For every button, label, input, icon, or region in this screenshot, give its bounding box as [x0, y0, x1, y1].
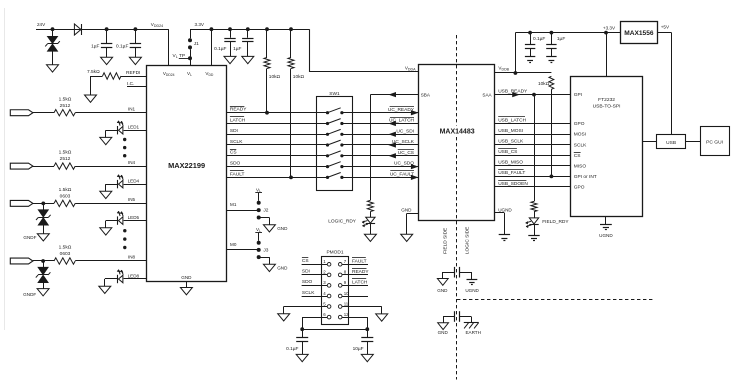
ground UGND right of C13: [467, 279, 478, 281]
junction R5/USB_FAULT: [550, 175, 554, 179]
jumper J3 pin2: [257, 248, 261, 252]
svg-text:IN8: IN8: [128, 255, 136, 260]
svg-text:UGND: UGND: [498, 207, 512, 212]
junction R3/FAULT: [289, 176, 293, 180]
svg-text:GNDF: GNDF: [23, 292, 36, 297]
svg-text:IN5: IN5: [128, 197, 136, 202]
wire PMOD pin3: [302, 285, 328, 287]
svg-text:FIELD_RDY: FIELD_RDY: [542, 219, 569, 225]
ground GNDF under IN8 TVS: [37, 289, 49, 296]
svg-text:1.5kΩ: 1.5kΩ: [59, 187, 72, 193]
diode D1 series: [74, 24, 81, 35]
resistor R-LOGICRDY: [367, 200, 373, 211]
wire PMOD pin8: [342, 274, 368, 276]
wire UC_FAULT SW1-U2: [353, 177, 419, 179]
svg-text:CS: CS: [230, 150, 237, 156]
LED LOGIC_RDY: [366, 217, 375, 223]
arrow USB_READY: [513, 92, 519, 96]
svg-text:CS: CS: [574, 153, 581, 159]
junction +3.3V: [604, 31, 608, 35]
svg-text:USB_SCLK: USB_SCLK: [498, 139, 524, 145]
ellipsis dots LED1-LED4: [123, 138, 126, 141]
capacitor C9 0.1uF: [530, 33, 532, 45]
svg-text:MAX22199: MAX22199: [168, 161, 205, 170]
switch SW1 pole 7: [316, 177, 327, 179]
svg-text:+3.3V: +3.3V: [603, 25, 616, 30]
junction R2/READY: [265, 111, 269, 115]
wire LED4 to ground: [106, 184, 118, 186]
wire IN8 to U1: [75, 260, 147, 262]
svg-text:10: 10: [344, 291, 349, 296]
ground UGND under FIELD_RDY: [528, 235, 539, 237]
svg-text:GND: GND: [277, 266, 288, 271]
svg-text:SDO: SDO: [302, 279, 313, 285]
svg-text:GNDF: GNDF: [23, 235, 36, 240]
PMOD1 pin 4 circle: [327, 294, 331, 298]
junction IN5/TVS: [41, 202, 45, 206]
wire J3 pin3 to ground: [259, 257, 270, 259]
arrow UC_SDI out of U2: [389, 132, 395, 136]
junction C2/rail: [134, 27, 138, 31]
svg-text:EARTH: EARTH: [465, 330, 481, 335]
connector tag IN8: [10, 258, 33, 264]
arrow UC_FAULT into U2: [411, 175, 417, 179]
svg-text:UGND: UGND: [465, 288, 479, 293]
svg-text:LATCH: LATCH: [230, 117, 246, 123]
capacitor C3 0.1uF: [230, 29, 232, 38]
PMOD1 pin 7 circle: [338, 263, 342, 267]
ground EARTH symbol: [464, 322, 479, 324]
svg-text:CS: CS: [302, 258, 309, 264]
PMOD1 pin 6 circle: [327, 315, 331, 319]
resistor R-IN1 1.5kohm: [54, 110, 75, 116]
wire PMOD pin1: [302, 264, 328, 266]
wire LED1 from U1: [124, 130, 147, 132]
ground under LOGIC_RDY: [364, 234, 376, 241]
ground UGND under U2: [499, 234, 510, 236]
resistor R-IN8 1.5kohm: [54, 258, 75, 264]
jumper J2 pin1: [257, 201, 261, 205]
resistor R-FIELDRDY: [531, 201, 537, 211]
ground under LED8: [99, 286, 111, 293]
svg-text:0603: 0603: [60, 193, 71, 199]
svg-text:VL: VL: [187, 71, 192, 77]
svg-text:USB_FAULT: USB_FAULT: [498, 170, 525, 176]
U2 pin GND wire: [407, 213, 419, 215]
svg-text:SCLK: SCLK: [230, 139, 243, 145]
switch SW1 pole 3: [316, 134, 327, 136]
svg-text:SDI: SDI: [302, 269, 310, 275]
svg-text:1µF: 1µF: [557, 36, 565, 42]
svg-text:IN4: IN4: [128, 160, 136, 165]
svg-text:SCLK: SCLK: [574, 142, 587, 148]
regulator U4 MAX1556 box: [621, 22, 658, 44]
svg-text:USB_READY: USB_READY: [498, 89, 528, 95]
ground GNDF under TVS: [47, 65, 59, 72]
ground UGND under C10: [546, 56, 556, 58]
svg-text:USB_CS: USB_CS: [498, 149, 517, 155]
PMOD1 pin 9 circle: [338, 284, 342, 288]
svg-text:SW1: SW1: [329, 91, 340, 97]
ground under LED4: [100, 191, 112, 198]
junction 24V/TVS: [51, 27, 55, 31]
svg-text:J1: J1: [194, 41, 199, 47]
wire J1 to TP: [190, 49, 192, 65]
wire LED4 from U1: [124, 184, 147, 186]
svg-text:1µF: 1µF: [233, 46, 241, 52]
junction C3/rail: [228, 27, 232, 31]
wire VDDB riser: [515, 33, 517, 73]
wire M0 pin to U1: [227, 249, 259, 251]
wire UC_READY SW1-U2: [353, 112, 419, 114]
resistor R-IN4 1.5kohm: [54, 163, 75, 169]
svg-text:PMOD1: PMOD1: [326, 249, 343, 255]
svg-text:USB_MOSI: USB_MOSI: [498, 128, 523, 134]
svg-text:GND: GND: [181, 275, 192, 280]
svg-text:GPI: GPI: [574, 92, 582, 98]
svg-text:SCLK: SCLK: [302, 290, 315, 296]
TVS diode D-24V: [48, 36, 58, 43]
op-amp U1 MAX22199 box: [147, 66, 227, 282]
connector tag IN4: [10, 163, 33, 169]
junction VDDB riser: [514, 71, 518, 75]
connector tag IN1: [10, 110, 33, 116]
svg-text:J3: J3: [263, 247, 268, 253]
svg-text:LATCH: LATCH: [352, 279, 368, 285]
svg-text:1µF: 1µF: [91, 44, 99, 50]
svg-text:11: 11: [344, 301, 349, 306]
svg-text:FAULT: FAULT: [352, 258, 367, 264]
junction VL TP: [188, 56, 192, 60]
svg-text:LED8: LED8: [128, 273, 140, 278]
svg-text:MAX1556: MAX1556: [624, 30, 654, 37]
wire PMOD pin5 to ground: [284, 306, 328, 308]
svg-text:USB_MISO: USB_MISO: [498, 160, 523, 166]
wire USB_LATCH: [494, 123, 571, 125]
ground under C3: [224, 56, 236, 63]
LED LED1: [117, 126, 119, 134]
ground under C1: [101, 57, 113, 64]
svg-text:UC_SDI: UC_SDI: [396, 128, 414, 134]
ground under C12: [361, 354, 373, 361]
svg-text:SDI: SDI: [230, 128, 238, 134]
jumper J1 stem top: [190, 29, 192, 38]
connector tag IN5: [10, 200, 33, 206]
wire UC_SCLK SW1-U2: [353, 144, 419, 146]
PMOD1 pin 10 circle: [338, 294, 342, 298]
wire M1 pin to U1: [227, 210, 259, 212]
wire IN4 left: [33, 166, 54, 168]
arrow UC_SCLK out of U2: [389, 143, 395, 147]
svg-text:J2: J2: [263, 208, 268, 214]
svg-text:VDD: VDD: [205, 71, 214, 77]
wire VDDB pin: [494, 72, 551, 74]
svg-text:USB-TO-SPI: USB-TO-SPI: [593, 104, 621, 110]
junction FIELD_RDY branch: [532, 93, 536, 97]
svg-text:GPO: GPO: [574, 185, 585, 191]
svg-text:UC_CS: UC_CS: [398, 150, 414, 156]
svg-text:0.1µF: 0.1µF: [214, 46, 226, 52]
wire USB to PC GUI: [686, 141, 700, 143]
wire PMOD pin2: [302, 274, 328, 276]
svg-text:1.5kΩ: 1.5kΩ: [59, 150, 72, 156]
wire UC_SDO SW1-U2: [353, 166, 419, 168]
wire LED1 to ground: [106, 130, 118, 132]
U3 UGND wire: [605, 217, 607, 224]
wire C13 right to UGND: [471, 272, 473, 279]
svg-text:MAX14483: MAX14483: [440, 129, 475, 136]
ground GNDF under IN5 TVS: [37, 234, 49, 241]
arrow UC_READY into U2: [411, 111, 417, 115]
svg-text:0.1µF: 0.1µF: [286, 346, 298, 352]
wire +3.3V to FT2232: [606, 33, 608, 76]
wire PMOD pin10 stub: [342, 296, 368, 298]
svg-text:2512: 2512: [60, 103, 71, 109]
LED LED8: [117, 275, 119, 283]
PMOD1 pin 2 circle: [327, 273, 331, 277]
jumper J3 pin1: [257, 241, 261, 245]
junction C9/rail: [528, 31, 532, 35]
svg-text:I.C.: I.C.: [127, 81, 134, 87]
switch SW1 pole 4: [316, 144, 327, 146]
LED LED4: [117, 180, 119, 188]
wire VDD24 down: [168, 29, 170, 65]
svg-text:REFDI: REFDI: [126, 70, 140, 76]
svg-text:7.5kΩ: 7.5kΩ: [87, 69, 100, 75]
wire SDI U1-SW1: [227, 134, 317, 136]
svg-text:0603: 0603: [60, 251, 71, 257]
wire +5V: [657, 32, 671, 34]
wire LED to ground: [370, 224, 372, 235]
svg-text:LOGIC_RDY: LOGIC_RDY: [328, 219, 357, 225]
capacitor C13 GND-UGND: [443, 272, 455, 274]
wire USB_MISO: [494, 165, 571, 167]
svg-text:GND: GND: [401, 208, 412, 213]
ground under PMOD pin11: [376, 314, 388, 321]
wire UC_SDI SW1-U2: [353, 134, 419, 136]
jumper J1 pin1: [188, 38, 192, 42]
switch SW1 box: [317, 97, 353, 191]
wire SBA: [370, 94, 418, 96]
wire U3 to USB: [642, 141, 656, 143]
svg-text:24V: 24V: [37, 22, 46, 27]
wire PMOD pin11 to ground: [342, 306, 382, 308]
ground UGND under U3: [600, 224, 612, 226]
ellipsis dots LED5-LED8: [123, 229, 126, 232]
wire LED8 from U1: [124, 278, 147, 280]
jumper J2 pin3: [257, 216, 261, 220]
svg-text:LED1: LED1: [128, 125, 140, 130]
ground under C2: [129, 57, 141, 64]
svg-text:GND: GND: [437, 288, 448, 293]
capacitor C12 10uF: [367, 329, 369, 337]
svg-text:SAA: SAA: [482, 93, 492, 98]
junction C1/rail: [105, 27, 109, 31]
ground under U1: [180, 288, 192, 295]
ground under LED1: [100, 137, 112, 144]
wire C14 left to GND: [443, 316, 445, 323]
junction C12: [365, 327, 369, 331]
svg-text:READY: READY: [352, 269, 369, 275]
wire IN8 left: [33, 260, 54, 262]
capacitor C2 0.1uF: [135, 29, 137, 43]
wire VDD down: [211, 29, 213, 65]
wire UC_LATCH SW1-U2: [353, 123, 419, 125]
arrow UC_CS out of U2: [389, 154, 395, 158]
wire PMOD pin4: [302, 296, 328, 298]
PMOD1 pin 11 circle: [338, 305, 342, 309]
svg-text:10kΩ: 10kΩ: [269, 74, 281, 80]
wire IN1 to U1: [75, 112, 147, 114]
svg-text:MISO: MISO: [574, 163, 587, 169]
connector PMOD1 box: [322, 257, 349, 325]
switch SW1 pole 6: [316, 166, 327, 168]
resistor R5 10kohm pullup: [549, 76, 554, 89]
capacitor C14 GND-EARTH: [443, 316, 455, 318]
ground UGND under C9: [525, 56, 535, 58]
LED LED5: [117, 216, 119, 224]
isolation barrier vertical dashed upper: [456, 35, 458, 126]
junction R3/rail: [289, 27, 293, 31]
resistor R-IN5 1.5kohm: [54, 200, 75, 206]
block PC GUI box: [701, 127, 730, 156]
svg-text:10kΩ: 10kΩ: [538, 81, 550, 87]
wire R-REFDI to ground: [90, 76, 92, 95]
wire FIELD_RDY down: [534, 95, 536, 202]
wire USB_FAULT: [494, 176, 571, 178]
svg-text:0.1µF: 0.1µF: [116, 44, 128, 50]
svg-text:VDDB: VDDB: [498, 66, 509, 72]
wire IN5 to U1: [75, 203, 147, 205]
wire SDO U1-SW1: [227, 166, 317, 168]
svg-text:UC_FAULT: UC_FAULT: [390, 172, 414, 178]
pin I.C. stub: [127, 86, 147, 88]
svg-text:FIELD SIDE: FIELD SIDE: [442, 228, 448, 254]
capacitor C11 0.1uF: [302, 329, 304, 337]
junction VDD stub: [210, 27, 214, 31]
svg-text:VDD24: VDD24: [163, 71, 175, 77]
wire SBA down to R-LOGIC: [370, 95, 372, 201]
arrow SBA out: [389, 92, 395, 96]
interface U3 FT2232 box: [571, 77, 643, 217]
wire USB_SCLK: [494, 144, 571, 146]
capacitor C4 1uF: [247, 29, 249, 38]
junction C10/rail: [550, 31, 554, 35]
wire PMOD pin6 down: [302, 317, 327, 319]
wire LED5 from U1: [124, 220, 147, 222]
connector USB box: [657, 135, 686, 149]
svg-text:GPI or INT: GPI or INT: [574, 174, 597, 180]
ground under R-REFDI: [85, 95, 97, 102]
wire USB_MOSI: [494, 134, 571, 136]
ground under C4: [242, 56, 254, 63]
svg-text:10µF: 10µF: [353, 346, 364, 352]
svg-text:USB_LATCH: USB_LATCH: [498, 117, 526, 123]
svg-text:12: 12: [344, 312, 349, 317]
svg-text:SDO: SDO: [230, 161, 241, 167]
svg-text:VDDA: VDDA: [405, 66, 416, 72]
svg-text:MOSI: MOSI: [574, 132, 586, 138]
digital isolator U2 MAX14483 box: [419, 65, 495, 221]
wire C13 left to GND: [442, 272, 444, 279]
junction R2/rail: [265, 27, 269, 31]
svg-text:LOGIC SIDE: LOGIC SIDE: [464, 227, 470, 254]
wire C14 right to EARTH: [471, 317, 473, 323]
ground GND left of C14: [438, 323, 449, 330]
LED FIELD_RDY: [529, 218, 538, 224]
ground under C11: [296, 354, 308, 361]
switch SW1 pole 5: [316, 155, 327, 157]
wire PMOD vcc bus: [302, 329, 367, 331]
PMOD1 pin 1 circle: [327, 263, 331, 267]
wire USB_CS: [494, 155, 571, 157]
wire SCLK U1-SW1: [227, 144, 317, 146]
ground under J2: [263, 225, 275, 232]
svg-text:UGND: UGND: [599, 233, 613, 238]
svg-text:SBA: SBA: [421, 93, 431, 98]
wire SAA USB_READY: [494, 94, 571, 96]
svg-text:GPO: GPO: [574, 121, 585, 127]
ground under U2 GND: [401, 234, 413, 241]
svg-text:10kΩ: 10kΩ: [293, 74, 305, 80]
jumper J2 pin2: [257, 208, 261, 212]
svg-text:1.5kΩ: 1.5kΩ: [59, 96, 72, 102]
arrow UC_LATCH out of U2: [389, 121, 395, 125]
svg-text:LED5: LED5: [128, 215, 140, 220]
wire TVS top: [52, 29, 54, 36]
svg-text:2512: 2512: [60, 156, 71, 162]
wire U1 GND: [186, 282, 188, 288]
svg-text:PC GUI: PC GUI: [706, 140, 723, 146]
junction C11: [300, 327, 304, 331]
resistor R3 10kohm pullup: [290, 29, 292, 57]
svg-text:0.1µF: 0.1µF: [533, 36, 545, 42]
wire LED8 to ground: [105, 278, 118, 280]
TVS diode on IN5: [43, 203, 45, 209]
ground GND left of C13: [437, 279, 448, 286]
wire 3.3V rail: [190, 29, 309, 31]
svg-text:USB_SDOEN: USB_SDOEN: [498, 181, 528, 187]
wire IN1 left: [33, 112, 54, 114]
wire CS U1-SW1: [227, 155, 317, 157]
wire IN5 left: [33, 203, 54, 205]
svg-text:FAULT: FAULT: [230, 171, 245, 177]
svg-text:UC_READY: UC_READY: [388, 107, 415, 113]
switch SW1 pole 2: [316, 123, 327, 125]
wire READY U1-SW1: [227, 112, 317, 114]
jumper J1 pin2: [188, 45, 192, 49]
U2 pin UGND wire: [494, 212, 504, 214]
svg-text:M0: M0: [230, 242, 237, 247]
svg-text:1.5kΩ: 1.5kΩ: [59, 245, 72, 251]
switch SW1 pole 1: [316, 112, 327, 114]
ground under PMOD pin5: [278, 314, 290, 321]
wire TVS to ground: [52, 51, 54, 65]
junction IN8/TVS: [41, 259, 45, 263]
resistor R2 10kohm pullup: [266, 29, 268, 57]
jumper J3 pin3: [257, 255, 261, 259]
PMOD1 pin 12 circle: [338, 315, 342, 319]
svg-text:VDD24: VDD24: [151, 22, 163, 28]
isolation barrier vertical dashed lower: [456, 137, 458, 380]
svg-text:USB: USB: [666, 140, 676, 146]
wire 24V rail: [36, 29, 169, 31]
isolation barrier horizontal dashed: [457, 299, 655, 301]
wire VDDB rail: [515, 32, 620, 34]
PMOD1 pin 3 circle: [327, 284, 331, 288]
wire J2 pin3 to ground: [259, 217, 270, 219]
svg-text:3.3V: 3.3V: [195, 22, 205, 27]
